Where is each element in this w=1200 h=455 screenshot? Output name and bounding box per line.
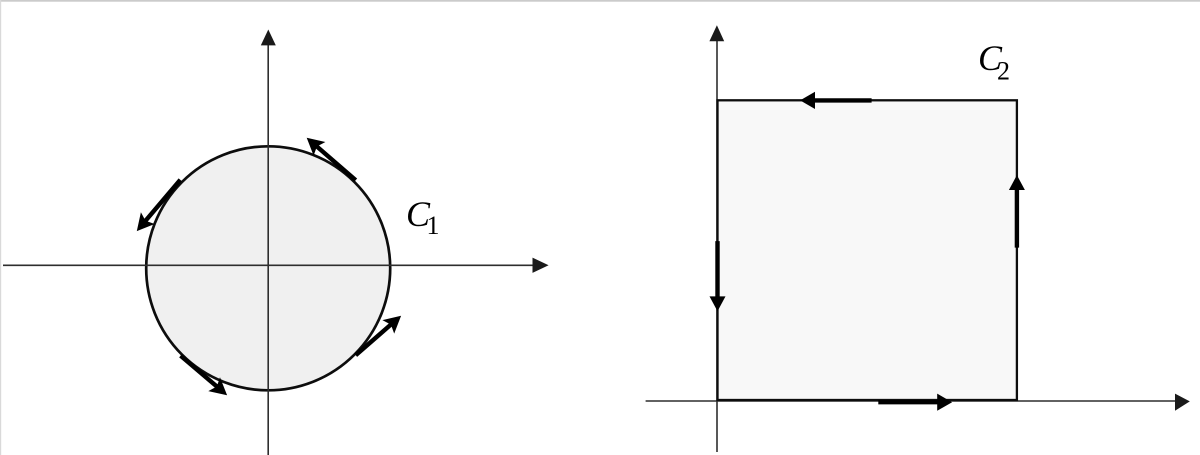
- orientation arrow on C2 right edge (points up): [1009, 175, 1025, 248]
- orientation arrow on C1, upper-left (points down-left): [137, 180, 181, 231]
- svg-text:1: 1: [427, 211, 440, 240]
- y-axis arrowhead (right figure): [709, 25, 724, 41]
- square C2 (shaded): [718, 100, 1017, 400]
- y-axis line (left figure): [267, 44, 269, 455]
- svg-text:2: 2: [997, 57, 1010, 86]
- x-axis line (left figure): [3, 264, 534, 266]
- top border line: [0, 0, 1200, 2]
- circle C1 (shaded disk): [146, 146, 390, 390]
- y-axis arrowhead (left figure): [261, 30, 276, 46]
- left border line: [0, 0, 1, 455]
- orientation arrow on C1, bottom-left (points down-right): [181, 356, 228, 396]
- x-axis line (right figure): [646, 400, 1177, 402]
- orientation arrow on C1, bottom-right (points up-right): [356, 316, 401, 356]
- x-axis arrowhead (right figure): [1175, 394, 1190, 411]
- orientation arrow on C2 top edge (points left): [800, 92, 872, 109]
- orientation arrow on C2 bottom edge (points right): [878, 394, 952, 411]
- x-axis arrowhead (left figure): [533, 258, 549, 273]
- orientation arrow on C1, top-right (points up-left): [307, 138, 356, 181]
- orientation arrow on C2 left edge (points down): [710, 241, 726, 311]
- y-axis line (right figure): [716, 40, 718, 452]
